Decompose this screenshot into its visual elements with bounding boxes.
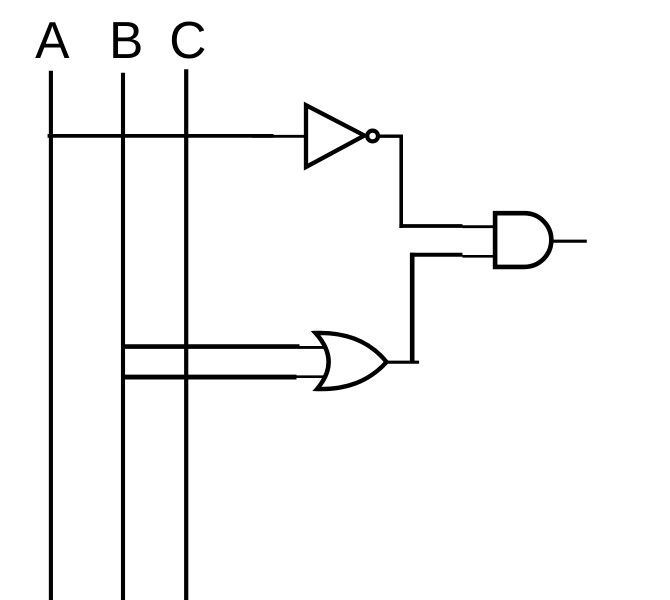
OR gate U2 body [316,333,387,389]
NOT gate U1 triangle [306,105,364,167]
input line B (vertical bus) [121,73,125,600]
wire horizontal to AND top input [399,224,462,228]
svg-text:A: A [35,11,70,69]
AND gate top input stub [463,225,498,228]
wire B to OR lower input [121,375,297,380]
AND gate bottom input stub [463,255,498,258]
OR gate upper input stub [299,346,330,349]
wire vertical from OR output up [410,253,415,363]
OR gate output stub [384,361,419,364]
NOT gate input stub [252,135,308,138]
NOT gate U1 inversion bubble [367,131,378,142]
svg-text:B: B [109,11,143,69]
wire A to NOT gate [48,134,274,138]
AND gate output wire [551,240,587,243]
svg-text:C: C [169,11,206,69]
wire horizontal to AND bottom input [410,253,462,257]
AND gate U3 body [495,213,551,267]
input line A (vertical bus) [49,71,53,600]
OR gate lower input stub [296,375,330,378]
wire B to OR upper input [121,344,300,349]
input line C (vertical bus) [184,69,188,600]
wire vertical from NOT output down [399,135,403,229]
NOT gate output stub [371,134,403,137]
